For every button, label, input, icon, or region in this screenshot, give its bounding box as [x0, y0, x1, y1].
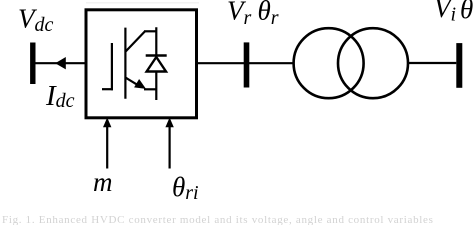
arrow theta_ri into box	[169, 126, 171, 169]
IGBT body bar	[124, 28, 126, 99]
IGBT gate bar	[111, 43, 113, 90]
arrow Idc (points left)	[55, 57, 66, 69]
arrow m into box	[106, 126, 108, 169]
IGBT collector diagonal	[125, 31, 145, 51]
converter box U1	[86, 10, 197, 118]
wire transformer to Vi bus	[408, 62, 456, 64]
diode D1 triangle	[147, 57, 166, 72]
wire dc bus to converter	[35, 62, 86, 64]
node Vdc bus	[30, 43, 35, 85]
node Vr bus	[244, 42, 250, 87]
IGBT gate lead	[102, 88, 113, 90]
IGBT emitter horizontal	[144, 88, 156, 90]
wire converter to Vr bus and transformer	[197, 62, 295, 64]
transformer T1 winding 1	[294, 28, 364, 98]
node Vi bus	[456, 43, 462, 88]
svg-text:m: m	[93, 167, 113, 197]
IGBT collector horizontal	[144, 30, 156, 32]
IGBT emitter arrowhead	[134, 79, 146, 89]
faint scan streak top	[86, 2, 199, 4]
diode branch vertical	[155, 27, 157, 100]
IGBT emitter diagonal	[125, 78, 139, 86]
diode D1 cathode bar	[146, 54, 167, 56]
svg-text:θi: θi	[460, 0, 474, 27]
svg-text:Vi: Vi	[434, 0, 456, 25]
svg-text:Fig. 1. Enhanced HVDC conv: Fig. 1. Enhanced HVDC converter model an…	[2, 214, 434, 225]
transformer T1 winding 2	[338, 28, 408, 98]
